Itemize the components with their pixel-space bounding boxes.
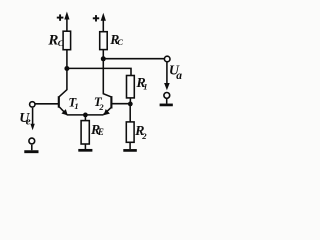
svg-text:1: 1 — [143, 82, 147, 92]
label R1 — [135, 76, 147, 92]
node: T1 collector junction — [64, 66, 69, 71]
ground: below R2 — [123, 149, 137, 152]
supply arrow right (+ rail into right Rc) — [101, 13, 106, 32]
plus sign right supply — [93, 15, 99, 21]
resistor Rc left — [63, 31, 71, 50]
svg-text:2: 2 — [141, 131, 147, 141]
wire: output (T2 collector node to output terminal) — [103, 58, 164, 60]
svg-text:a: a — [176, 70, 182, 82]
wire: T1 collector (node down to transistor) — [59, 69, 67, 97]
node: T2 collector junction — [101, 56, 106, 61]
label RE — [90, 122, 104, 137]
label Ua — [169, 64, 182, 82]
wire: output ground stem — [166, 98, 168, 103]
terminal: output circle — [164, 56, 170, 62]
wire: RE bottom to ground — [84, 144, 86, 149]
resistor R2 — [126, 122, 134, 142]
wire: input terminal to T1 base — [35, 103, 58, 105]
resistor RE — [81, 121, 89, 144]
wire: T2 collector (node down to transistor) — [103, 59, 111, 97]
label R2 — [134, 124, 147, 141]
supply arrow left (+ rail into left Rc) — [64, 12, 69, 32]
wire: base node to T2 base — [112, 103, 130, 105]
wire: emitter node to RE — [84, 115, 86, 121]
wire: cross-coupling T1 collector node to R1 — [67, 68, 131, 75]
terminal: input ground terminal circle — [29, 138, 35, 144]
node: T2 base junction — [128, 102, 133, 107]
ground: below RE — [78, 149, 92, 152]
svg-text:E: E — [97, 127, 104, 137]
label T2 — [94, 95, 105, 112]
label Rc left — [47, 32, 63, 48]
arrow Ue (input voltage) — [30, 108, 34, 130]
svg-text:e: e — [26, 116, 31, 128]
ground: output — [160, 104, 173, 107]
wire: input ground stem — [31, 145, 33, 150]
resistor Rc right — [100, 32, 108, 50]
arrow Ua (output voltage) — [164, 62, 170, 90]
wire: emitter rail T1 to T2 — [67, 114, 103, 116]
svg-text:C: C — [117, 37, 123, 47]
svg-text:2: 2 — [98, 102, 104, 112]
label Ue — [19, 111, 30, 128]
svg-text:C: C — [58, 38, 64, 48]
wire: R2 bottom to ground — [129, 142, 131, 149]
terminal: output ground terminal circle — [164, 93, 170, 99]
wire: R1 bottom to T2 base node — [129, 98, 131, 104]
wire: right Rc bottom to T2 collector node — [102, 50, 104, 59]
svg-text:1: 1 — [74, 101, 78, 111]
label Rc right — [109, 32, 123, 47]
transistor T1 — [59, 96, 68, 115]
wire: base node to R2 — [129, 104, 131, 122]
transistor T2 — [103, 96, 111, 115]
node: emitter junction (RE tap) — [83, 113, 88, 118]
wire: left Rc bottom to T1 collector node — [66, 50, 68, 69]
label T1 — [68, 95, 78, 111]
ground: input — [24, 150, 38, 153]
resistor R1 — [127, 76, 135, 98]
terminal: input circle — [30, 102, 35, 107]
plus sign left supply — [57, 14, 64, 20]
